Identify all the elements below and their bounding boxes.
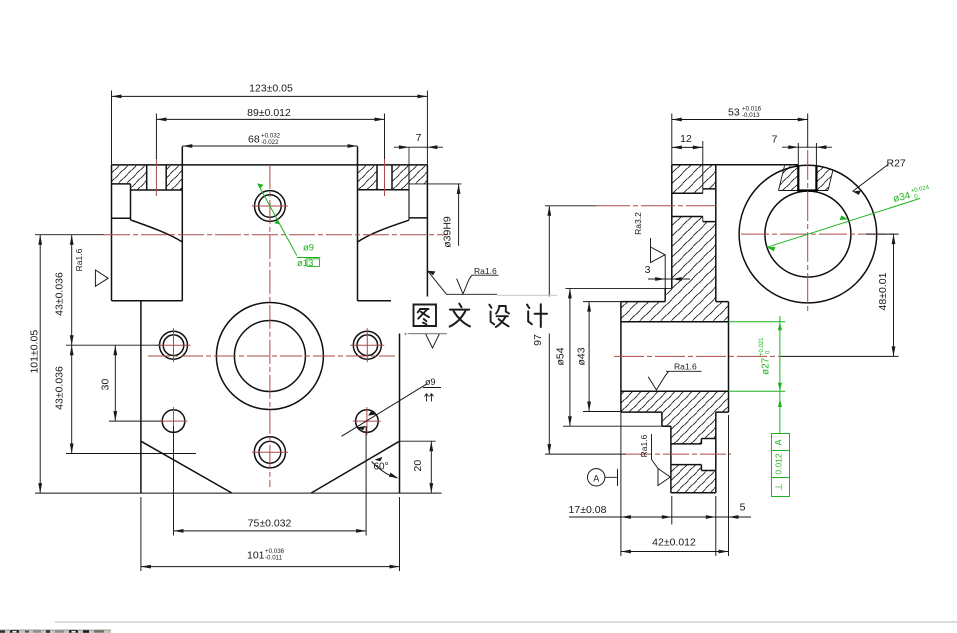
R27 leader: [853, 165, 889, 192]
hatch right rim: [409, 165, 427, 184]
17 arrow: [662, 515, 672, 519]
hatch top boss right of slot: [816, 166, 833, 190]
flange/hub left face: [620, 302, 622, 413]
89 arrows: [156, 118, 166, 122]
dim 7 line (left view): [394, 146, 443, 148]
42 arrows: [621, 550, 631, 554]
svg-text:0.012: 0.012: [774, 453, 784, 475]
flange band bottom (bore top): [621, 321, 729, 323]
column right edge: [715, 165, 717, 302]
green texts: [297, 185, 932, 491]
Ra3.2 symbol: [651, 238, 666, 263]
lower-left hole: [162, 410, 185, 433]
green o34 dimension line: [767, 198, 920, 247]
svg-text:A: A: [593, 473, 599, 483]
left view dimension texts: [29, 83, 497, 562]
dim 89 line: [156, 114, 384, 160]
dim o39H9 line: [458, 184, 460, 246]
dim o54 line: [563, 288, 662, 426]
dim 68 line: [182, 145, 357, 147]
hub centerline: [614, 355, 780, 357]
dim 17 line: [569, 412, 751, 556]
7 arrows outside: [788, 145, 798, 149]
watermark glyph TU (drawn): [414, 305, 437, 327]
svg-text:3: 3: [645, 264, 651, 276]
right view dimension texts: [532, 106, 906, 549]
101 left arrows: [38, 235, 42, 245]
slot hatch bottoms: [779, 190, 829, 192]
svg-text:60°: 60°: [374, 462, 389, 473]
top band outline: [112, 164, 428, 166]
60deg arc: [372, 462, 398, 479]
97 arrows: [547, 206, 551, 216]
watermark glyph SHE (drawn): [489, 305, 509, 327]
right band hole centerline: [384, 158, 386, 196]
right column inner edge: [357, 147, 359, 301]
hatch left inner A: [131, 165, 147, 190]
dim 97 line: [545, 206, 626, 454]
hub right face: [728, 302, 730, 413]
arrowheads right view: [547, 118, 895, 554]
3-step face: [664, 288, 666, 301]
svg-text:7: 7: [416, 132, 422, 144]
arrowheads left view: [38, 95, 460, 569]
top face: [672, 164, 799, 166]
horizontal centerline upper (o39 axis): [104, 234, 448, 236]
Ra1.6 top-right symbol: [457, 275, 499, 294]
101 bottom arrows: [141, 565, 151, 569]
dim 12 line: [672, 146, 703, 148]
svg-text:ø27: ø27: [761, 357, 772, 375]
7 arrows outside: [399, 145, 409, 149]
red centerlines right view: [596, 150, 898, 454]
hatch left rim: [112, 165, 131, 184]
123 arrows: [112, 95, 122, 99]
boss right face: [715, 412, 717, 493]
svg-text:Ra1.6: Ra1.6: [474, 266, 497, 276]
right band bottom: [358, 189, 410, 191]
plate right edge: [399, 301, 401, 493]
lower-right hole crosshair: [353, 407, 381, 435]
upper side hole centerline: [596, 205, 716, 207]
dim 48 line: [780, 234, 899, 356]
hatch flange band: [621, 302, 729, 322]
text o27 rotated with tol: [759, 337, 772, 375]
svg-text:Ra1.6: Ra1.6: [639, 434, 649, 457]
dim o43 line: [583, 302, 621, 412]
Ra1.6 top-left symbol: [95, 270, 108, 286]
svg-text:Ra1.6: Ra1.6: [74, 248, 84, 271]
svg-text:101±0.05: 101±0.05: [29, 330, 41, 374]
bottom center hole outer: [254, 437, 285, 468]
R27 arrow: [853, 191, 861, 195]
surface symbol below watermark: [401, 331, 447, 348]
svg-text:20: 20: [412, 460, 424, 472]
right chamfer 60deg: [311, 441, 400, 493]
dim 42 line: [621, 551, 729, 553]
svg-text:ø9: ø9: [425, 377, 436, 387]
svg-text:Ra1.6: Ra1.6: [674, 362, 697, 372]
68 arrows: [182, 144, 192, 148]
plate left edge: [140, 301, 142, 493]
53 arrows: [672, 118, 682, 122]
horizontal centerline of bore circle: [741, 233, 898, 235]
bottom center hole inner: [259, 441, 281, 463]
ledge line (o54 ext): [566, 287, 672, 289]
60 arc arrows: [375, 457, 383, 461]
collar step: [662, 412, 671, 426]
svg-text:-0.022: -0.022: [261, 139, 279, 146]
top hole crosshair: [252, 205, 288, 207]
hatch right inner A: [358, 165, 378, 190]
thick slot walls (o9 hole in top boss): [797, 166, 817, 190]
Ra1.6 top-right leader arrow: [428, 271, 436, 276]
5 arrows outside: [706, 515, 716, 519]
watermark glyph JI (drawn): [527, 304, 547, 327]
o39H9 arrow up: [457, 184, 461, 194]
big center bore inner: [234, 321, 305, 392]
dim 3 line: [648, 255, 690, 288]
left face: [671, 165, 673, 289]
text o34 rotated with tol: [892, 185, 932, 206]
43 lower arrows: [70, 345, 74, 355]
flange top edges: [621, 301, 729, 303]
svg-text:R27: R27: [887, 158, 906, 170]
right S-curve: [358, 220, 410, 242]
green leader o9/o13 at top hole: [258, 184, 321, 258]
o9 leader arrows: [357, 426, 366, 430]
green tolerance frame: [772, 434, 790, 497]
upper-left hole crosshair: [157, 328, 191, 362]
big center bore outer: [216, 303, 323, 410]
top slot chamfer line left: [779, 166, 785, 191]
R27 cylinder outer circle: [739, 165, 877, 303]
bore bottom line: [621, 390, 729, 392]
left chamfer 60deg: [141, 441, 232, 493]
top hole outer: [255, 191, 286, 222]
boss left face: [670, 426, 672, 493]
faint separator line: [55, 622, 957, 623]
20 arrows: [429, 441, 433, 451]
left pocket vline: [130, 184, 132, 220]
svg-text:+0.021: +0.021: [759, 337, 765, 356]
green box around 13: [307, 259, 320, 267]
upper-left hole outer: [160, 331, 188, 359]
3 arrows outside: [655, 277, 665, 281]
hatch left inner B: [166, 165, 182, 190]
left S-curve: [131, 220, 183, 242]
counterbore lines upper: [703, 189, 716, 222]
toolbar strip: [0, 630, 111, 633]
hatch boss lower: [671, 465, 716, 493]
svg-text:42±0.012: 42±0.012: [652, 537, 696, 549]
boss bottom: [671, 492, 716, 494]
svg-text:43±0.036: 43±0.036: [54, 272, 66, 316]
hatch fills of top band: [112, 165, 428, 190]
svg-text:12: 12: [680, 133, 692, 145]
right ledge: [409, 217, 427, 219]
svg-text:53: 53: [728, 107, 740, 119]
small hole top/bottom lines: [672, 193, 703, 216]
green arrowheads: [258, 184, 849, 408]
upper-right hole crosshair: [350, 328, 384, 362]
hatch right inner B: [392, 165, 409, 190]
green o27 extension lines: [729, 322, 786, 391]
plate bottom edge (extended for dims): [35, 492, 442, 494]
svg-text:ø13: ø13: [297, 258, 313, 269]
ext line 43 bottom: [66, 453, 196, 455]
left outer edge: [111, 165, 113, 301]
step edge at 12: [702, 141, 704, 222]
red centerlines: [104, 158, 448, 487]
svg-text:97: 97: [532, 334, 544, 346]
dim 7 line top boss: [782, 143, 832, 166]
o54 arrows: [568, 288, 572, 298]
svg-text:68: 68: [248, 134, 260, 146]
hatch main block: [665, 217, 716, 302]
dim 101 bottom line: [141, 497, 400, 571]
surface symbol leader arrow: [401, 331, 409, 335]
43 upper arrows: [70, 235, 74, 245]
svg-text:43±0.036: 43±0.036: [54, 366, 66, 410]
dim 101 left line: [35, 235, 104, 493]
svg-text:ø43: ø43: [576, 347, 588, 365]
left ledge: [112, 217, 131, 219]
o34 bore circle: [765, 191, 851, 277]
12 arrows: [672, 146, 682, 150]
o9 leader lower-right: [342, 384, 442, 437]
dim 30 line: [114, 345, 116, 421]
Ra1.6 boss symbol: [652, 434, 671, 486]
right column bottom: [358, 300, 428, 302]
dim 75 line: [174, 426, 367, 536]
48 arrows: [892, 234, 896, 244]
left column inner edge: [181, 147, 183, 301]
30 arrows: [113, 345, 117, 355]
left rim bottom: [112, 183, 131, 185]
right outer edge: [426, 165, 428, 301]
svg-text:ø54: ø54: [555, 347, 567, 365]
left column bottom: [112, 300, 183, 302]
o43 arrows: [587, 302, 591, 312]
left band hole centerline: [155, 158, 157, 196]
svg-text:5: 5: [740, 502, 746, 514]
lower-left hole crosshair: [160, 407, 188, 435]
right hole gap edges: [376, 165, 378, 190]
svg-text:ø9: ø9: [303, 243, 314, 254]
svg-text:123±0.05: 123±0.05: [249, 83, 293, 95]
lower-right hole: [356, 410, 379, 433]
ext line at lower hole row: [109, 420, 161, 422]
svg-text:89±0.012: 89±0.012: [247, 107, 291, 119]
datum A circle and leader: [588, 469, 605, 486]
hatch upper block B: [703, 165, 716, 189]
main vertical centerline: [269, 165, 271, 487]
dim 5 ext lines: [716, 415, 729, 556]
dim 43 upper + lower line: [71, 235, 73, 454]
75 arrows: [174, 529, 184, 533]
svg-text:-0.013: -0.013: [742, 112, 760, 119]
boss hole lines: [671, 444, 702, 465]
hub bottom edges: [621, 411, 729, 413]
bottom hole crosshair: [252, 451, 288, 453]
watermark glyph WEN (drawn): [450, 304, 470, 327]
dim 53 line: [672, 114, 808, 165]
ext line at upper hole row: [66, 344, 159, 346]
left band bottom: [131, 189, 183, 191]
top hole inner: [259, 195, 282, 218]
vertical centerline of top hole / circle: [807, 150, 809, 312]
svg-text:75±0.032: 75±0.032: [248, 518, 292, 530]
hatch upper-left block A: [672, 165, 703, 194]
hatch top boss left of slot: [779, 166, 799, 191]
upper-right hole inner: [357, 335, 378, 356]
right pocket vline: [408, 147, 410, 165]
svg-text:7: 7: [772, 134, 778, 146]
dim 20 line: [400, 441, 436, 493]
svg-text:-0.011: -0.011: [265, 555, 283, 562]
dim 123 line: [112, 91, 428, 165]
boss hole centerline: [626, 453, 731, 455]
top slot chamfer line right: [828, 170, 833, 191]
right rim bottom + dim extension: [409, 183, 462, 185]
hatch fills right view: [621, 165, 833, 493]
svg-text:A: A: [774, 439, 784, 445]
green o27 dimension line + frame leader: [779, 316, 781, 434]
circles of left view: [160, 191, 382, 468]
svg-text:17±0.08: 17±0.08: [569, 504, 607, 516]
upper-right hole outer: [353, 331, 381, 359]
svg-text:30: 30: [100, 379, 112, 391]
upper-left hole inner: [163, 335, 184, 356]
boss counterbore: [701, 439, 715, 471]
white halo strip: [391, 297, 557, 334]
Ra1.6 top-right leader: [428, 271, 497, 295]
svg-text:⊥: ⊥: [774, 483, 784, 491]
left hole gap edges: [146, 165, 148, 190]
svg-text:Ra3.2: Ra3.2: [633, 212, 643, 235]
svg-text:ø39H9: ø39H9: [442, 216, 454, 248]
Ra1.6 hub bore symbol: [648, 371, 701, 390]
hatch boss upper: [662, 412, 716, 444]
svg-text:48±0.01: 48±0.01: [877, 272, 889, 310]
hatch hub bottom band: [621, 391, 729, 412]
horizontal centerline big bore: [148, 355, 395, 357]
svg-text:101: 101: [247, 550, 265, 562]
